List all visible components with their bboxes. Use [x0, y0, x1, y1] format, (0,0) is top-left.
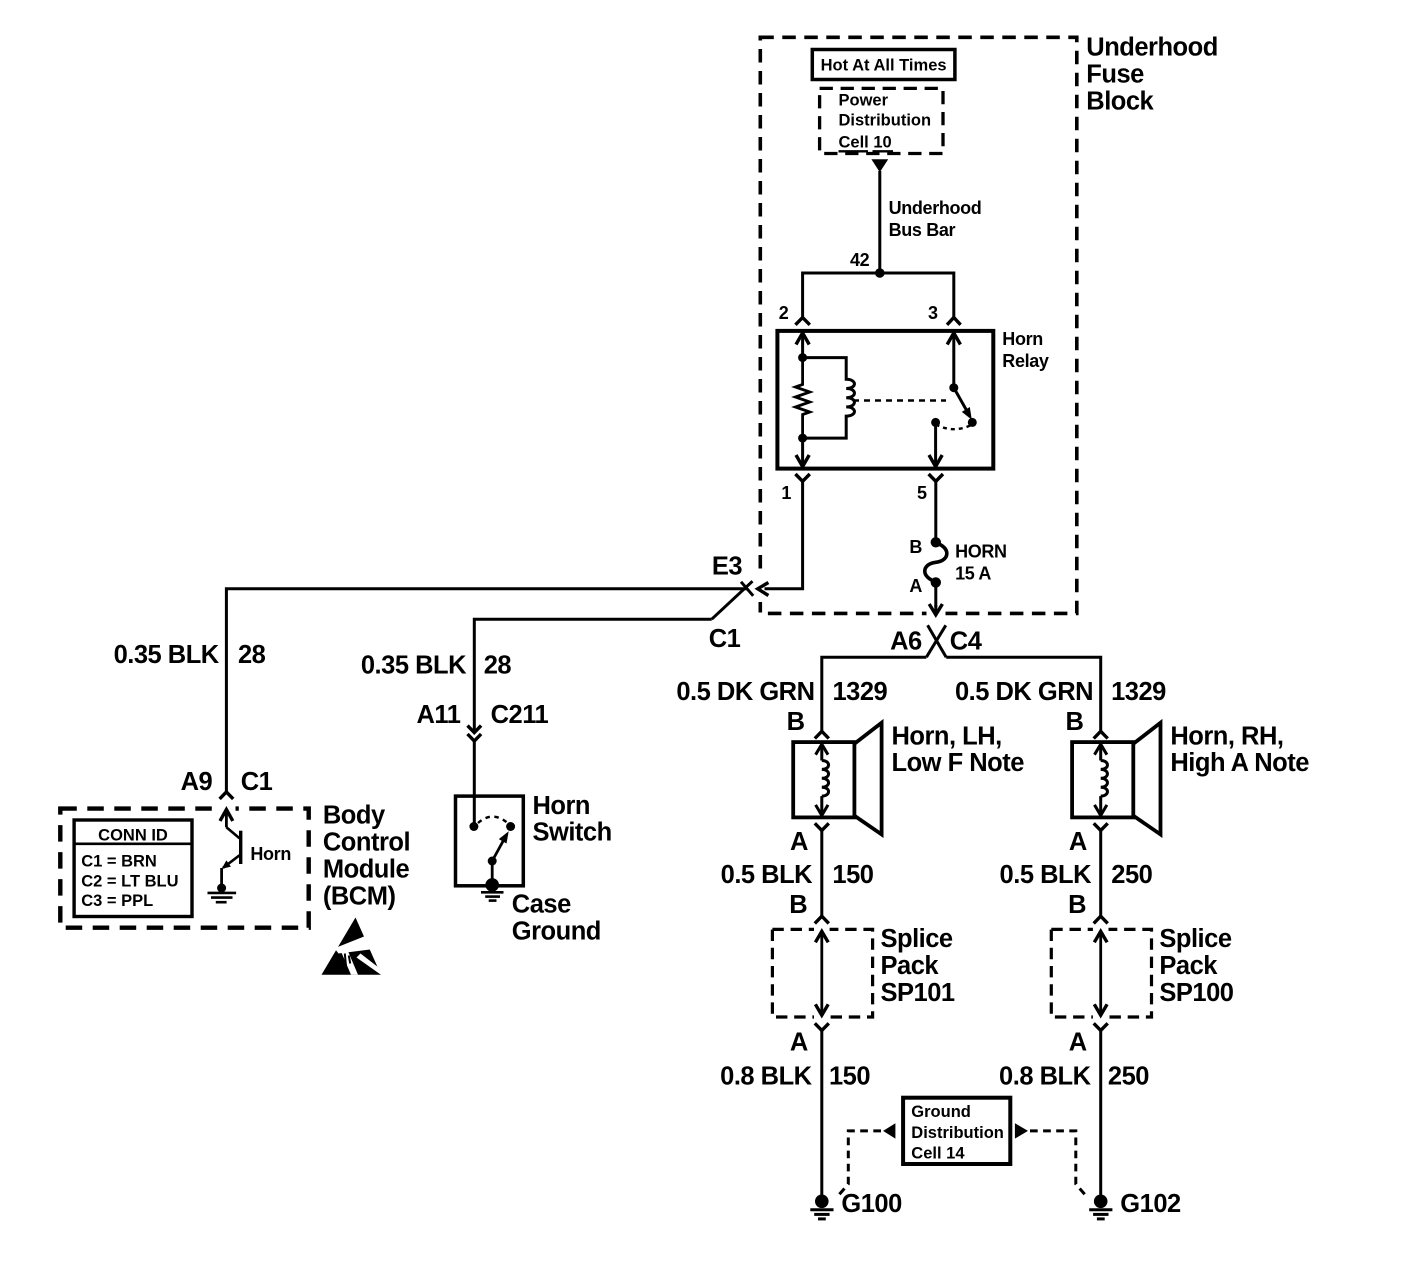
terminal chevron pin 5 — [929, 474, 943, 481]
power feed arrow (solid triangle) — [871, 159, 888, 172]
wire fuse output — [934, 582, 937, 614]
case ground dot — [485, 878, 499, 892]
svg-text:C211: C211 — [491, 701, 549, 729]
svg-text:A6: A6 — [890, 628, 922, 656]
svg-text:5: 5 — [917, 483, 927, 503]
svg-text:Horn: Horn — [533, 792, 591, 820]
svg-text:0.5 BLK: 0.5 BLK — [721, 861, 814, 889]
ground symbol (BCM) — [208, 893, 237, 902]
svg-text:B: B — [1065, 708, 1083, 736]
svg-text:G102: G102 — [1120, 1190, 1181, 1218]
wire horn switch feed (0.35 BLK 28) — [474, 619, 711, 732]
svg-text:0.5 BLK: 0.5 BLK — [1000, 861, 1093, 889]
svg-text:(BCM): (BCM) — [323, 882, 396, 910]
svg-text:0.8 BLK: 0.8 BLK — [720, 1063, 813, 1091]
svg-text:Distribution: Distribution — [911, 1124, 1004, 1142]
label Case Ground — [512, 890, 601, 945]
svg-text:Low F Note: Low F Note — [892, 749, 1025, 777]
svg-text:0.5 DK GRN: 0.5 DK GRN — [955, 678, 1093, 706]
svg-text:Distribution: Distribution — [839, 112, 932, 130]
horn relay box — [777, 331, 993, 469]
relay actuating dashed link — [853, 399, 946, 402]
Body Control Module dashed boundary — [60, 809, 308, 928]
svg-text:Underhood: Underhood — [1086, 33, 1217, 61]
svg-text:Ground: Ground — [512, 918, 601, 946]
label Underhood Bus Bar — [889, 198, 982, 240]
relay pin3 arrow (up) — [947, 333, 960, 388]
junction relay coil top — [798, 353, 807, 362]
relay coil winding — [803, 358, 855, 439]
svg-text:Fuse: Fuse — [1086, 60, 1144, 88]
ground distribution left arrow — [883, 1123, 895, 1138]
wire pin5 to fuse — [934, 481, 937, 542]
svg-text:Splice: Splice — [881, 925, 953, 953]
terminal chevron pin 2 — [795, 318, 809, 325]
svg-text:Relay: Relay — [1002, 351, 1049, 371]
svg-text:Power: Power — [839, 91, 889, 109]
connector A11/C211 arrowhead — [468, 726, 482, 733]
label Horn Relay — [1002, 329, 1049, 371]
switch blade with arrowhead — [492, 831, 509, 861]
svg-text:HORN: HORN — [955, 541, 1007, 561]
svg-text:0.35 BLK: 0.35 BLK — [361, 651, 467, 679]
arrowhead fuse output (down) — [927, 604, 946, 617]
svg-text:SP100: SP100 — [1159, 979, 1233, 1007]
svg-text:Splice: Splice — [1159, 925, 1231, 953]
svg-text:B: B — [789, 891, 807, 919]
svg-text:1329: 1329 — [833, 678, 888, 706]
svg-text:C3 = PPL: C3 = PPL — [81, 892, 153, 910]
svg-text:Ground: Ground — [911, 1103, 971, 1121]
ground G100 — [810, 1195, 833, 1219]
switch contact right dot — [506, 822, 515, 831]
svg-text:C4: C4 — [950, 628, 983, 656]
svg-text:Horn: Horn — [250, 844, 291, 864]
svg-text:Horn: Horn — [1002, 329, 1043, 349]
svg-text:Body: Body — [323, 802, 386, 830]
connector X at A6/C4 — [926, 625, 946, 657]
svg-text:Pack: Pack — [881, 952, 940, 980]
svg-text:Cell 14: Cell 14 — [911, 1145, 965, 1163]
svg-text:42: 42 — [850, 250, 870, 270]
svg-text:A11: A11 — [417, 701, 461, 729]
svg-text:28: 28 — [238, 641, 266, 669]
horn switch box — [456, 796, 524, 886]
label HORN 15 A — [955, 541, 1007, 583]
svg-text:A: A — [1069, 828, 1087, 856]
relay output arrow (down) — [929, 422, 942, 466]
relay contact (NO) — [968, 418, 977, 427]
svg-text:Control: Control — [323, 828, 410, 856]
svg-text:A: A — [1069, 1028, 1087, 1056]
fuse terminal A dot — [931, 577, 941, 587]
svg-text:C1 = BRN: C1 = BRN — [81, 853, 157, 871]
splice pack SP101 — [772, 916, 872, 1197]
fuse terminal B dot — [931, 537, 941, 547]
Hot At All Times box — [812, 50, 955, 80]
ground symbol (case) — [481, 892, 504, 900]
svg-text:G100: G100 — [841, 1190, 902, 1218]
ground distribution dashed link left — [838, 1131, 882, 1197]
svg-text:Switch: Switch — [533, 819, 612, 847]
svg-text:B: B — [787, 708, 805, 736]
svg-text:A: A — [909, 576, 922, 596]
svg-text:A: A — [790, 1028, 808, 1056]
horn LH (box, coil, bell, terminals) — [793, 723, 881, 916]
svg-text:C1: C1 — [709, 625, 741, 653]
splice pack SP100 — [1051, 916, 1151, 1197]
connector chevron at E3 (wire side) — [712, 581, 754, 619]
svg-text:Bus Bar: Bus Bar — [889, 220, 956, 240]
svg-text:SP101: SP101 — [881, 979, 955, 1007]
terminal chevron pin 3 — [947, 318, 961, 325]
wire bus bar horizontal — [803, 273, 956, 318]
wire into horn switch — [473, 741, 476, 827]
svg-text:2: 2 — [779, 303, 789, 323]
label Splice Pack SP100 — [1159, 925, 1233, 1007]
svg-text:B: B — [909, 537, 922, 557]
svg-text:250: 250 — [1108, 1063, 1149, 1091]
svg-text:Cell 10: Cell 10 — [839, 134, 892, 152]
wire pivot to case — [491, 861, 494, 884]
terminal chevron pin 1 — [795, 474, 809, 481]
label Horn, LH, Low F Note — [892, 722, 1025, 777]
ground G102 — [1089, 1195, 1112, 1219]
connector chevron A9 — [220, 792, 234, 799]
label Splice Pack SP101 — [881, 925, 955, 1007]
svg-text:Module: Module — [323, 855, 410, 883]
relay contact dashed arc — [936, 424, 973, 429]
resistor (relay coil suppression) — [795, 358, 809, 439]
svg-text:150: 150 — [832, 861, 873, 889]
relay switch common junction — [949, 383, 958, 392]
transistor Q (horn driver) — [222, 827, 241, 885]
svg-text:Horn, LH,: Horn, LH, — [892, 722, 1002, 750]
svg-text:C1: C1 — [241, 768, 273, 796]
horn RH (box, coil, bell, terminals) — [1072, 723, 1160, 916]
fuse HORN 15A (S-curve) — [925, 543, 947, 582]
Ground Distribution Cell 14 box — [903, 1098, 1010, 1164]
svg-text:B: B — [1068, 891, 1086, 919]
svg-text:0.35 BLK: 0.35 BLK — [114, 641, 220, 669]
svg-text:Horn, RH,: Horn, RH, — [1170, 722, 1283, 750]
svg-text:15 A: 15 A — [955, 563, 991, 583]
connector A11/C211 chevron — [468, 734, 482, 741]
svg-text:Underhood: Underhood — [889, 198, 982, 218]
relay pin2 arrow (up) — [796, 333, 809, 358]
ground dot (BCM) — [217, 884, 226, 893]
relay switch blade — [954, 388, 972, 420]
svg-text:A9: A9 — [181, 768, 213, 796]
label Body Control Module (BCM) — [323, 802, 410, 911]
label Horn Switch — [533, 792, 612, 847]
svg-text:3: 3 — [928, 303, 938, 323]
switch dashed travel arc — [478, 817, 507, 823]
svg-text:Block: Block — [1086, 87, 1154, 115]
label Underhood Fuse Block — [1086, 33, 1217, 115]
svg-text:1: 1 — [781, 483, 791, 503]
svg-text:CONN ID: CONN ID — [98, 826, 168, 844]
ground distribution right arrow — [1015, 1123, 1028, 1138]
Underhood Fuse Block dashed boundary — [760, 37, 1077, 613]
CONN ID table — [74, 820, 192, 917]
Power Distribution Cell 10 dashed box — [820, 88, 943, 153]
wire bus bar drop — [878, 171, 881, 273]
wire pin1 to connector E3 — [760, 481, 803, 589]
label Horn, RH, High A Note — [1170, 722, 1309, 777]
wire BCM feed (0.35 BLK 28) — [226, 589, 747, 792]
arrowhead at E3 (open, pointing left) — [756, 577, 769, 602]
svg-text:1329: 1329 — [1111, 678, 1166, 706]
relay contact (output) — [931, 418, 940, 427]
relay pin1 arrow (down) — [796, 438, 809, 467]
svg-text:250: 250 — [1111, 861, 1152, 889]
svg-text:0.8 BLK: 0.8 BLK — [999, 1063, 1092, 1091]
svg-text:Hot At All Times: Hot At All Times — [821, 57, 947, 75]
ground distribution dashed link right — [1030, 1131, 1087, 1197]
svg-text:0.5 DK GRN: 0.5 DK GRN — [676, 678, 814, 706]
switch pivot dot — [488, 857, 497, 866]
svg-text:E3: E3 — [712, 553, 743, 581]
svg-text:150: 150 — [829, 1063, 870, 1091]
wire split left to LH horn — [822, 657, 927, 731]
svg-text:Pack: Pack — [1159, 952, 1218, 980]
BCM input arrow (up) — [218, 804, 236, 828]
svg-text:C2 = LT BLU: C2 = LT BLU — [81, 873, 178, 891]
svg-text:Case: Case — [512, 890, 571, 918]
svg-text:28: 28 — [484, 651, 512, 679]
junction relay coil bottom — [798, 434, 807, 443]
svg-text:High A Note: High A Note — [1170, 749, 1309, 777]
ESD warning symbol — [322, 918, 385, 976]
wire split right to RH horn — [946, 657, 1100, 731]
junction bus bar — [875, 268, 885, 278]
switch contact left dot — [469, 822, 478, 831]
svg-text:A: A — [790, 828, 808, 856]
